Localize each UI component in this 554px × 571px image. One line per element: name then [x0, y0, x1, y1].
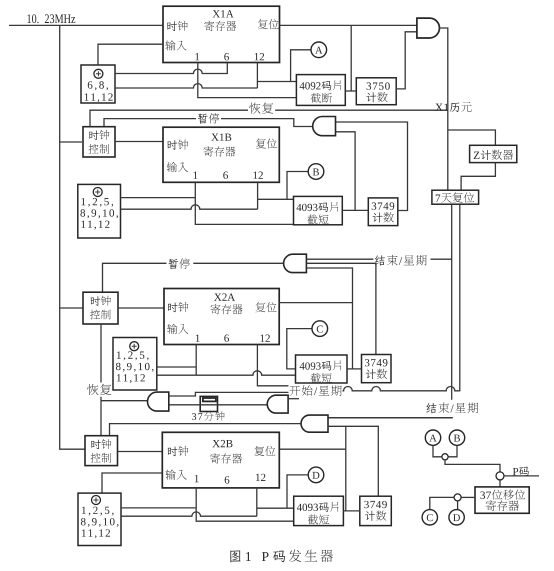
node D: [308, 467, 324, 483]
net label pause (C): [169, 258, 190, 269]
wire 4093B to 3749B: [342, 209, 368, 211]
block 3749 counter B: [368, 198, 398, 226]
wire clock control B to X1B: [115, 141, 163, 143]
wire tap-12 C down to start/week label: [257, 345, 288, 386]
net label pause (B): [198, 113, 219, 124]
node C: [312, 321, 328, 337]
wire junction to P-code node: [445, 460, 500, 472]
wire 4093D to 3749D: [343, 510, 359, 512]
wire end/week line to gate D: [328, 417, 453, 419]
block 3750 counter: [356, 78, 396, 105]
wire 3749B output to AND gate B: [336, 122, 408, 211]
wire tap-12 branch to 4092 truncation: [257, 81, 296, 83]
mod-2 adder C: [113, 338, 157, 391]
wire tap-1 down to 4092 truncation: [198, 63, 297, 98]
wire adder-C line to 4093C with hop over tap-12: [157, 345, 296, 376]
wire adder-B to tap 1: [121, 197, 196, 199]
wire adder-D to tap 12 with hop over tap-1: [121, 488, 257, 516]
wire X1 epoch output down to 7-day reset: [440, 28, 448, 190]
wire X2A reset: [279, 302, 352, 304]
net label start/week: [289, 385, 341, 396]
wire X1A reset line to AND gate: [280, 24, 417, 26]
wire junction to node C2 and D2: [430, 497, 458, 509]
net label end/week (C): [375, 255, 427, 266]
wire X1 epoch branch to Z counter: [448, 130, 496, 145]
node C (output): [422, 510, 437, 525]
block 37-minute delay: [200, 396, 217, 411]
AND gate B (pause): [313, 117, 336, 136]
wire 3750 output to AND gate A: [396, 32, 417, 89]
mod-2 adder D: [78, 493, 121, 545]
wire node-D to tap-12 net: [287, 475, 308, 508]
clock control B: [83, 127, 115, 157]
net label recovery (B): [249, 102, 273, 113]
wire adder-A output to X1A input: [98, 44, 163, 65]
wire P-code output: [504, 475, 539, 477]
block 37-bit shift register: [475, 487, 529, 513]
wire main clock bus vertical with branch corners: [60, 25, 85, 449]
node A (output): [425, 430, 440, 445]
node B: [308, 164, 324, 180]
block 3749 counter D: [360, 496, 392, 525]
wire node A2 and B2 to junction: [433, 445, 457, 456]
wire adder-C to tap 1: [157, 366, 196, 368]
wire Z counter to 7-day reset: [461, 163, 495, 190]
label 37 minutes: [192, 411, 225, 420]
wire X2B input to adder D: [102, 473, 162, 493]
wire AND-B lower input to truncation junction: [336, 132, 356, 211]
wire X2B reset: [279, 448, 346, 450]
wire adder-B to tap 12 with hop over tap-1: [121, 182, 258, 209]
block 4092 chip truncation: [296, 75, 345, 106]
wire gate D middle line to 3749D: [328, 426, 378, 496]
clock control D: [85, 436, 118, 466]
node A (X1A epoch): [311, 42, 327, 58]
AND gate C (end of week): [284, 254, 307, 272]
net label recovery (D): [87, 384, 111, 395]
junction node P-code: [496, 472, 504, 480]
wire 10.23MHz clock line: [9, 24, 163, 26]
wire tap-12 D branch to 4093D: [257, 507, 294, 509]
wire recovery gate lower line through delay to start gate: [169, 404, 267, 406]
wire reset line down to 4092-3750 junction: [350, 25, 352, 91]
wire gate D output to clock control D: [110, 424, 302, 436]
block 4093 chip truncation D: [294, 496, 344, 525]
wire gate C lower line to truncation junction C: [306, 268, 352, 369]
node D (output): [449, 510, 464, 525]
wire recovery gate upper line to start/week: [169, 392, 289, 396]
wire pause line B: [104, 119, 313, 127]
AND gate recovery: [148, 392, 169, 411]
net label end/week (D): [426, 403, 478, 414]
block 4093 chip truncation B: [294, 196, 343, 224]
register X1B: [163, 127, 279, 182]
wire P node down to shift register: [499, 480, 501, 487]
wire 7-day reset left output down: [451, 204, 453, 400]
AND gate A (X1 epoch): [417, 18, 440, 38]
block 3749 counter C: [362, 355, 392, 383]
wire gate C to end/week line: [306, 258, 451, 260]
wire clock control C to X2A: [118, 307, 164, 309]
wire adder-D to tap 1: [121, 507, 196, 509]
wire tap-1 B down to 4093: [195, 182, 293, 224]
wire shift register to C/D junction: [461, 496, 475, 498]
mod-2 adder B (taps 1,2,5,8,9,10,11,12): [78, 184, 121, 238]
mod-2 adder (taps 6,8,11,12): [81, 65, 115, 103]
wire start gate output under label: [288, 398, 299, 400]
wire 7-day reset right output down to start/week corner: [459, 204, 461, 391]
wire truncation junction D vertical: [345, 426, 347, 511]
wire pause line C from gate C: [103, 263, 285, 292]
wire 4092 to 3750: [345, 90, 356, 92]
wire adder-A to tap 6 with hop over tap-1: [115, 63, 227, 74]
node B (output): [449, 430, 464, 445]
wire tap-1 D down to 4093D: [196, 488, 294, 521]
wire recovery line B: [90, 110, 448, 127]
clock control C: [83, 292, 118, 324]
wire recovery vertical from control-C to control-D: [101, 324, 148, 436]
register X1A: [163, 6, 280, 62]
net label 10.23MHz clock input: [27, 14, 75, 23]
junction node C+D: [454, 494, 461, 501]
block 7-day reset: [432, 190, 479, 204]
wire clock control D to X2B: [118, 451, 163, 453]
block 4093 chip truncation C: [296, 355, 348, 383]
junction node A+B: [442, 454, 448, 460]
net label P-code: [513, 467, 529, 476]
register X2A: [164, 289, 279, 345]
net label X1 epoch: [435, 102, 471, 112]
wire tap-12 B branch to 4093: [258, 198, 294, 200]
wire 4093C to 3749C: [347, 368, 362, 370]
register X2B: [162, 432, 279, 488]
wire adder-A to tap 12 with hop over tap-1: [115, 63, 257, 89]
AND gate D (end of week): [301, 415, 328, 432]
wire node-B to tap-12 net: [287, 172, 308, 200]
wire gate C middle line to 3749C: [306, 263, 376, 354]
wire node-C to 4093C: [287, 329, 312, 369]
AND gate start/week: [267, 395, 288, 413]
caption figure 1 P-code generator: [230, 550, 333, 563]
wire node-A to tap-12 net: [291, 50, 311, 82]
block Z counter: [470, 145, 517, 162]
wire start/week line with hops to 7-day reset branch: [343, 386, 460, 390]
